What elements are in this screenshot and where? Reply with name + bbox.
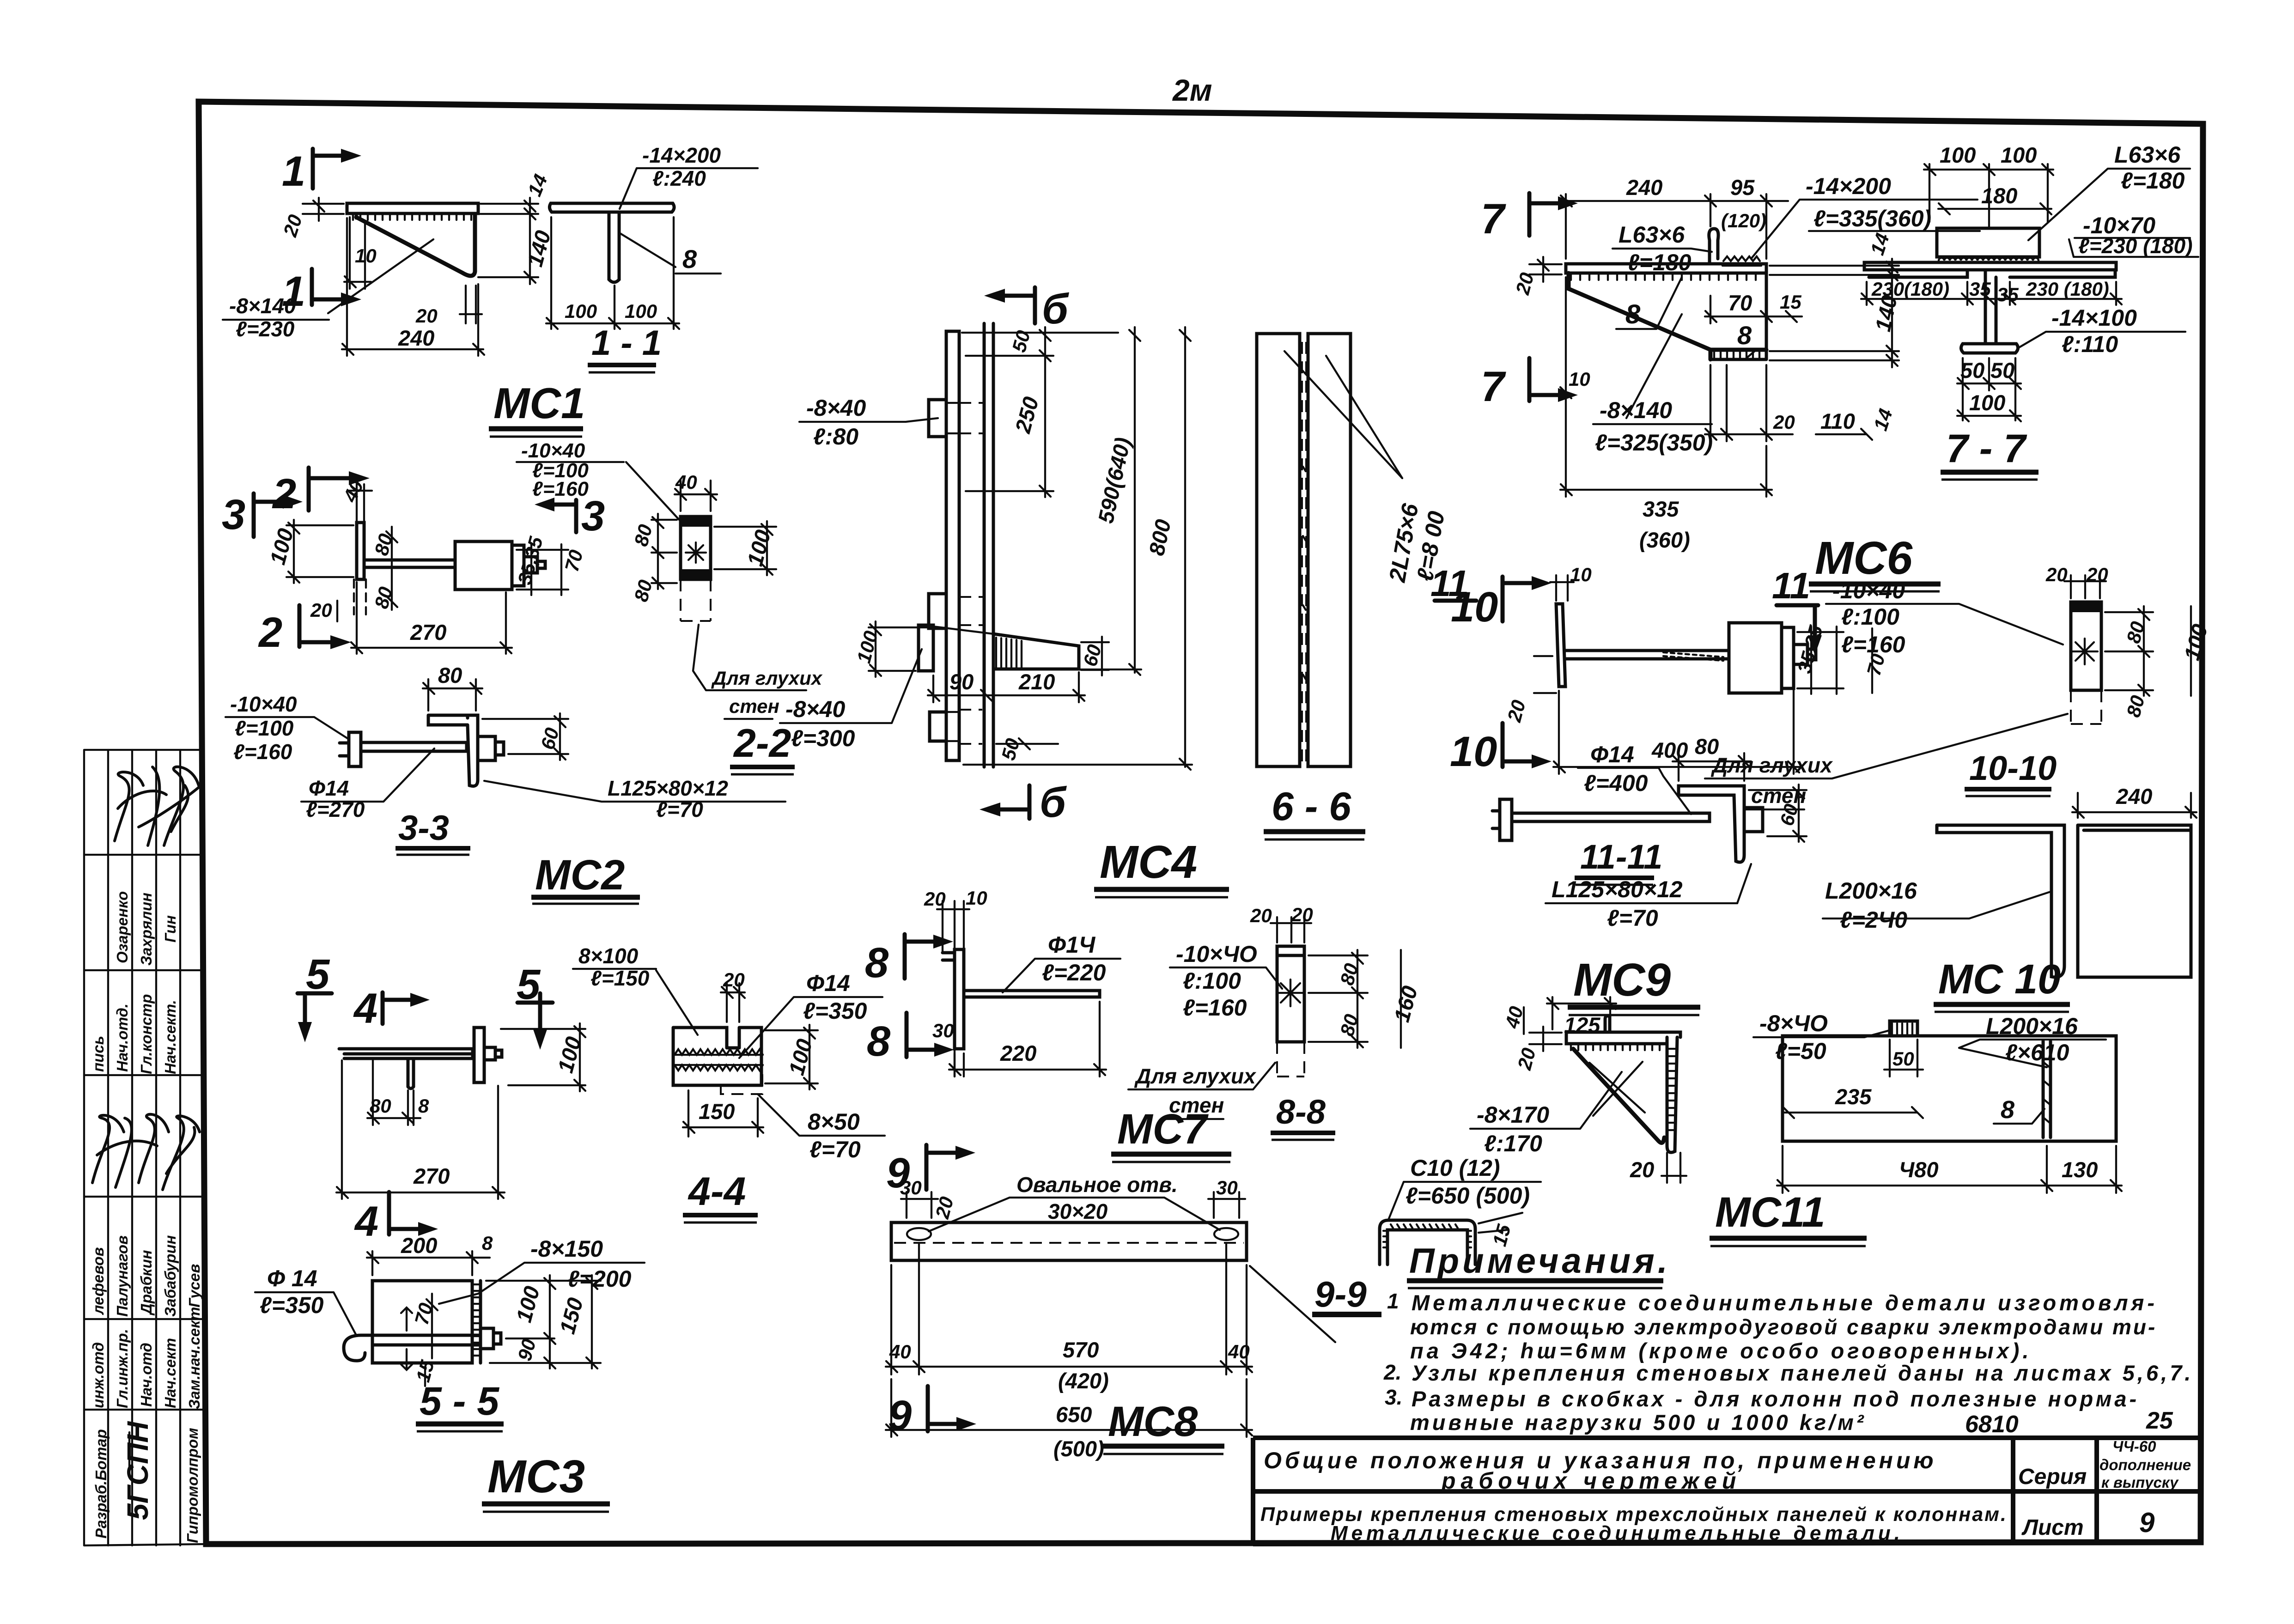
svg-text:5 - 5: 5 - 5 [420, 1379, 499, 1423]
8-8 note for blind walls [1128, 1063, 1275, 1119]
section mark 2 bottom [258, 605, 351, 656]
section mark 6 top [984, 286, 1069, 333]
note 1 [1387, 1289, 2158, 1363]
MC7 dims 20 10 top [924, 887, 987, 963]
svg-text:ℓ=350: ℓ=350 [260, 1292, 324, 1318]
svg-text:Ф14: Ф14 [309, 776, 349, 800]
3-3 title [396, 809, 470, 855]
svg-text:25: 25 [2146, 1407, 2173, 1434]
svg-text:-14×200: -14×200 [642, 143, 721, 167]
svg-text:8: 8 [418, 1095, 429, 1117]
svg-text:235: 235 [1835, 1084, 1872, 1109]
section mark 7 top [1481, 193, 1578, 243]
svg-text:Палунагов: Палунагов [114, 1235, 131, 1317]
svg-text:Примечания.: Примечания. [1409, 1241, 1671, 1281]
svg-text:(420): (420) [1058, 1369, 1109, 1393]
svg-text:210: 210 [1018, 669, 1055, 694]
section mark 3 top [222, 491, 303, 538]
6-6 right bar [1308, 334, 1351, 766]
MC2 dim 40 top [339, 477, 372, 523]
5-5 dim 15 [412, 1357, 438, 1386]
section mark 8 top [865, 934, 953, 986]
svg-text:L125×80×12: L125×80×12 [608, 776, 728, 800]
svg-text:8: 8 [865, 939, 889, 986]
MC11 dims 40 125 above gusset [1501, 997, 1616, 1037]
svg-text:-8×40: -8×40 [806, 395, 866, 421]
svg-text:ℓ=160: ℓ=160 [532, 478, 589, 500]
MC8 dims 30 30 20 [900, 1177, 1245, 1221]
svg-text:8-8: 8-8 [1276, 1093, 1326, 1131]
svg-text:8: 8 [482, 1232, 493, 1254]
title block cell List [2021, 1515, 2084, 1540]
section mark 2 top [272, 468, 370, 517]
MC2 dims 35 35 70 right [513, 534, 587, 595]
MC6 dims right 14 140 14 [1770, 231, 1902, 433]
svg-text:Разраб.Ботар: Разраб.Ботар [92, 1429, 110, 1539]
svg-text:стен: стен [1169, 1093, 1224, 1117]
svg-text:50: 50 [1990, 358, 2014, 383]
svg-text:МС 10: МС 10 [1938, 956, 2061, 1003]
svg-text:Ч80: Ч80 [1899, 1157, 1939, 1182]
8-8 label -10x40 [1170, 941, 1282, 1021]
MC6 angle stub on top [1709, 229, 1761, 266]
svg-text:11: 11 [1772, 565, 1810, 606]
3-3 label -10x40 [225, 692, 349, 764]
svg-text:270: 270 [410, 620, 446, 645]
9-9 label C10(12) [1388, 1155, 1541, 1220]
MC4 dim 800 [963, 327, 1192, 770]
section mark 5 left [298, 951, 332, 1042]
svg-text:ℓ=220: ℓ=220 [1042, 960, 1106, 985]
svg-text:Нач.отд: Нач.отд [138, 1343, 155, 1407]
svg-text:Нач.сект.: Нач.сект. [162, 1000, 179, 1074]
svg-text:2м: 2м [1172, 73, 1212, 107]
3-3 dim 80 [423, 663, 482, 711]
svg-text:Металлические соединительные д: Металлические соединительные детали. [1331, 1522, 1904, 1545]
svg-text:3: 3 [222, 491, 245, 538]
svg-text:ℓ=400: ℓ=400 [1584, 770, 1648, 796]
svg-text:7: 7 [1481, 363, 1506, 410]
MC10 dim 240 [2072, 784, 2197, 818]
svg-text:80: 80 [438, 663, 462, 687]
4-4 title [683, 1169, 758, 1223]
svg-text:рабочих чертежей: рабочих чертежей [1441, 1468, 1741, 1494]
svg-text:ℓ=200: ℓ=200 [567, 1266, 632, 1292]
svg-text:8: 8 [2001, 1096, 2014, 1124]
11-11 dim 60 [1749, 785, 1807, 842]
svg-text:ℓ=160: ℓ=160 [1841, 632, 1905, 657]
8-8 dims 80 80 160 [1308, 950, 1422, 1048]
svg-text:к выпуску: к выпуску [2101, 1474, 2179, 1491]
MC11 gusset label -8x170 [1470, 1072, 1622, 1156]
MC2 dim 270 [351, 582, 512, 654]
svg-text:ℓ=160: ℓ=160 [233, 740, 292, 764]
MC6 top plate [1566, 264, 1766, 280]
svg-text:240: 240 [2116, 784, 2152, 809]
MC9 dim 400 [1553, 668, 1800, 774]
MC4 label -8x40 l=300 [780, 649, 922, 751]
svg-text:-10×ЧO: -10×ЧO [1176, 941, 1257, 967]
5-5 label -8x150 l=200 [439, 1236, 645, 1304]
MC4 title [1094, 836, 1229, 897]
3-3 label L125x80x12 [484, 776, 785, 821]
MC6 dim 335 (360) [1560, 398, 1772, 552]
svg-text:Лист: Лист [2021, 1515, 2084, 1540]
11-11 angle [1679, 786, 1763, 862]
svg-text:-8×40: -8×40 [785, 696, 845, 722]
svg-text:8: 8 [682, 244, 697, 274]
MC10 label L200x16 l=240 [1823, 878, 2051, 933]
5-5 dim 70 [410, 1294, 438, 1358]
MC9 washer plate [1556, 604, 1565, 687]
title block cell series value [2099, 1438, 2191, 1491]
svg-text:-10×40: -10×40 [1832, 578, 1905, 603]
MC6 dims 20 110 [1705, 365, 1872, 441]
MC7 dim 30 [932, 1020, 964, 1077]
svg-text:2-2: 2-2 [733, 721, 791, 766]
stamp strip titles row 2 [90, 1307, 203, 1409]
MC11 plate label -8x40 l=50 [1753, 1010, 1890, 1064]
svg-text:5: 5 [306, 951, 330, 998]
svg-text:ℓ=70: ℓ=70 [1607, 905, 1658, 931]
MC6 title [1809, 532, 1941, 591]
svg-text:(120): (120) [1721, 210, 1766, 231]
7-7 dims 100 100 180 [1924, 143, 2053, 226]
MC7 title [1111, 1106, 1231, 1162]
svg-text:Гин: Гин [162, 915, 179, 943]
7-7 bottom pad [1961, 344, 2018, 353]
svg-text:Гусев: Гусев [186, 1264, 203, 1308]
svg-text:инж.отд: инж.отд [90, 1342, 107, 1408]
svg-text:1: 1 [1387, 1289, 1399, 1313]
section mark 4 top [353, 985, 430, 1032]
svg-text:20: 20 [1630, 1157, 1654, 1182]
svg-text:20: 20 [415, 305, 438, 327]
svg-text:Ф1Ч: Ф1Ч [1048, 932, 1096, 958]
MC3 dim 100 right [501, 1023, 586, 1091]
svg-text:100: 100 [1940, 143, 1976, 167]
9-9 leader from MC8 [1250, 1266, 1335, 1342]
section mark 7 bottom [1481, 358, 1578, 410]
MC2 title [531, 852, 640, 904]
MC2 plan block [455, 541, 545, 590]
3-3 dim 60 [482, 713, 568, 760]
4-4 weld hatch band [673, 1049, 763, 1071]
svg-text:9: 9 [2139, 1507, 2155, 1538]
MC4 main plate [946, 331, 959, 760]
border frame [199, 102, 2203, 1544]
MC4 top bolt block [929, 400, 983, 437]
svg-text:100: 100 [565, 300, 597, 322]
MC10 title [1934, 956, 2070, 1012]
svg-text:15: 15 [1780, 291, 1801, 313]
MC4 dim 50 250 top [962, 327, 1118, 497]
svg-text:МС2: МС2 [535, 852, 625, 899]
1-1 label 8 weld [620, 233, 721, 274]
MC1 dim 20 bottom right [415, 286, 482, 327]
MC11 dim 50 [1884, 1040, 1923, 1077]
11-11 label -10x40 l=100 l=160 [1826, 578, 2063, 657]
MC3 title [482, 1451, 610, 1512]
5-5 small weld arrows [401, 1308, 412, 1370]
7-7 flange dim texts [1861, 278, 2122, 305]
svg-text:2: 2 [258, 609, 282, 656]
svg-text:50: 50 [1960, 358, 1984, 383]
svg-text:ℓ=335(360): ℓ=335(360) [1813, 206, 1931, 231]
svg-text:ℓ=2Ч0: ℓ=2Ч0 [1840, 907, 1907, 933]
svg-text:-14×200: -14×200 [1806, 173, 1891, 199]
svg-text:тивные нагрузки 500 и 1000 k: тивные нагрузки 500 и 1000 kг/м² [1410, 1410, 1867, 1435]
svg-text:Ф14: Ф14 [806, 970, 850, 996]
MC1 bracket top plate [347, 203, 478, 220]
MC1 dim 20 left [279, 198, 344, 240]
svg-text:ℓ=180: ℓ=180 [2121, 168, 2185, 194]
svg-text:10: 10 [966, 887, 987, 909]
3-3 angle bracket [428, 715, 504, 786]
MC1 dim 240 [342, 218, 484, 356]
2-2 dim 100 right [714, 521, 776, 575]
svg-text:1: 1 [282, 148, 305, 195]
svg-text:650: 650 [1056, 1402, 1092, 1427]
svg-text:-10×40: -10×40 [230, 692, 297, 716]
svg-text:100: 100 [2001, 143, 2037, 167]
4-4 label 8x100 [573, 944, 698, 1035]
MC6 dim 20 left [1511, 257, 1562, 297]
svg-text:10: 10 [1450, 728, 1497, 775]
MC3 plan plates [339, 1049, 473, 1058]
sheet number stamp 2m top center [1172, 73, 1212, 107]
svg-text:Гл.инж.пр.: Гл.инж.пр. [114, 1329, 131, 1408]
svg-text:95: 95 [1730, 175, 1755, 200]
svg-text:8×50: 8×50 [808, 1109, 860, 1135]
svg-text:Зам.нач.сект: Зам.нач.сект [186, 1307, 203, 1409]
MC11 plate tab [1890, 1021, 1917, 1036]
svg-text:240: 240 [398, 326, 434, 350]
left stamp strip outer box [84, 750, 206, 1545]
MC2 plan washer plate [354, 523, 366, 614]
MC7 rod [964, 991, 1100, 997]
title block cell sheet number 9 [2139, 1507, 2155, 1538]
MC9 rod [1565, 651, 1729, 661]
section mark 9 bottom [888, 1386, 976, 1439]
svg-text:35: 35 [1969, 278, 1991, 300]
svg-text:-8×150: -8×150 [530, 1236, 603, 1262]
svg-text:70: 70 [1728, 291, 1752, 315]
svg-text:270: 270 [413, 1164, 450, 1188]
svg-text:8: 8 [1737, 321, 1752, 350]
4-4 bottom dashed pad [721, 1067, 762, 1094]
svg-text:20: 20 [1773, 411, 1795, 433]
MC11 title [1710, 1189, 1867, 1246]
MC3 plan washer bolt [474, 1028, 502, 1083]
svg-text:Металлические соединительные: Металлические соединительные детали изго… [1412, 1290, 2158, 1315]
section mark 3 right [535, 493, 605, 540]
svg-text:180: 180 [1981, 183, 2017, 208]
MC11 dim 235 [1783, 1084, 1923, 1118]
9-9 title [1312, 1274, 1381, 1314]
svg-text:МС3: МС3 [487, 1451, 585, 1502]
title block cell Seriya [2018, 1465, 2087, 1489]
MC4 dim 100 bracket [852, 621, 931, 677]
MC1 dim 10 [344, 217, 377, 289]
MC11 dim 20 gusset left [1513, 1027, 1562, 1072]
4-4 dim 20 gap [721, 969, 745, 1022]
svg-text:20: 20 [924, 888, 946, 910]
section mark 9 top [886, 1145, 975, 1197]
MC11 plate [1783, 1036, 2116, 1141]
svg-text:11-11: 11-11 [1580, 838, 1662, 876]
svg-text:30×20: 30×20 [1048, 1199, 1108, 1223]
MC6 label 8 weld left [1616, 277, 1682, 329]
MC3 dim 270 [336, 1060, 505, 1199]
svg-text:9-9: 9-9 [1314, 1274, 1367, 1314]
4-4 label F14 l=350 [739, 970, 882, 1058]
10-10 plate [2071, 602, 2101, 724]
svg-text:-8×170: -8×170 [1477, 1102, 1549, 1128]
svg-text:230(180): 230(180) [1871, 278, 1949, 300]
MC2 dim 80 80 [370, 527, 397, 611]
svg-text:30: 30 [1216, 1177, 1238, 1198]
7-7 top pad [1937, 228, 2039, 261]
svg-text:240: 240 [1626, 175, 1662, 200]
1-1 dims 100 100 [546, 217, 679, 329]
MC1 leader label -8x140 l=230 [223, 294, 329, 341]
svg-text:335: 335 [1643, 497, 1679, 521]
MC7 label F14 l=220 [1003, 932, 1120, 992]
svg-text:Ф14: Ф14 [1590, 742, 1634, 767]
MC8 title [1102, 1398, 1224, 1454]
svg-text:5ГСПН: 5ГСПН [121, 1421, 154, 1520]
svg-text:-14×100: -14×100 [2051, 305, 2137, 331]
5-5 dim 200 8 [367, 1232, 493, 1275]
svg-text:б: б [1042, 286, 1069, 333]
MC4 dim 590(640) [1063, 327, 1141, 675]
6-6 center dashed seam [1302, 342, 1306, 762]
svg-text:дополнение: дополнение [2099, 1456, 2191, 1473]
svg-text:Ф 14: Ф 14 [267, 1265, 317, 1291]
svg-text:Для глухих: Для глухих [711, 667, 823, 689]
MC6 dim 10 [1560, 277, 1590, 398]
svg-text:L125×80×12: L125×80×12 [1552, 876, 1683, 902]
svg-text:МС9: МС9 [1573, 954, 1671, 1006]
svg-text:400: 400 [1651, 738, 1688, 762]
svg-text:Драбкин: Драбкин [138, 1250, 155, 1316]
svg-text:стен: стен [729, 695, 779, 717]
MC1 bracket web [356, 213, 475, 276]
5-5 plate rect [372, 1281, 481, 1363]
svg-text:ℓ=70: ℓ=70 [809, 1137, 861, 1162]
stamp strip org row [92, 1421, 201, 1543]
4-4 label 8x50 l=70 [758, 1094, 885, 1162]
MC2 dim 20 [310, 599, 337, 621]
MC7 dim 220 [949, 1002, 1106, 1077]
stamp strip names row 1 [114, 891, 179, 966]
svg-text:ются с помощью электродуговой: ются с помощью электродуговой сварки эле… [1410, 1315, 2157, 1339]
svg-text:МС11: МС11 [1715, 1189, 1825, 1236]
MC1 leader cross [328, 239, 433, 313]
svg-text:3-3: 3-3 [398, 809, 449, 848]
MC8 dims 40 570 40 [886, 1243, 1252, 1393]
6-6 label 2L75x6 l=800 [1284, 351, 1449, 584]
svg-text:-8×140: -8×140 [229, 294, 296, 318]
MC8 oval hole right [1214, 1228, 1238, 1240]
7-7 label -14x100 l=110 [2019, 305, 2185, 357]
MC1 dims right 14 140 [478, 171, 555, 284]
7-7 label -10x70 [2069, 213, 2198, 258]
svg-text:Овальное отв.: Овальное отв. [1016, 1173, 1178, 1197]
1-1 stem [609, 212, 619, 282]
MC10 angle side view [1937, 825, 2064, 977]
10-10 dim 20 20 [2045, 564, 2108, 598]
svg-text:стен: стен [1751, 784, 1806, 808]
section mark 10 bottom [1450, 723, 1552, 775]
svg-text:Озаренко: Озаренко [114, 891, 131, 963]
svg-text:6810: 6810 [1965, 1411, 2019, 1438]
svg-text:20: 20 [2086, 564, 2108, 585]
4-4 right block [728, 1028, 761, 1085]
svg-text:100: 100 [1969, 390, 2005, 415]
7-7 web [1985, 270, 1996, 344]
title block text row 2 [1260, 1503, 2008, 1545]
2-2 title [730, 721, 795, 774]
svg-text:200: 200 [401, 1233, 437, 1258]
MC4 panel double line [984, 323, 993, 767]
MC4 dims 90 210 [928, 669, 1085, 702]
svg-text:30: 30 [932, 1020, 954, 1041]
2-2 dims 80 80 left [630, 514, 677, 604]
MC6 dims 240 95 (120) [1560, 175, 1788, 259]
8-8 plate [1277, 946, 1304, 1077]
section mark 1 top [282, 148, 361, 195]
svg-text:Размеры в скобках - для колон: Размеры в скобках - для колонн под полез… [1412, 1387, 2139, 1411]
svg-text:L200×16: L200×16 [1825, 878, 1917, 904]
MC11 label 8 weld [1994, 1096, 2045, 1124]
MC11 label L200x16 l=610 [1959, 1013, 2106, 1067]
stamp strip signatures row 1 [115, 767, 201, 845]
section mark 10 top [1451, 576, 1552, 631]
svg-text:ℓ:80: ℓ:80 [813, 424, 858, 450]
3-3 label F14 l=270 [301, 748, 434, 821]
2-2 dim 40 top [675, 471, 717, 511]
MC9 dim 20 left [1503, 656, 1556, 724]
section mark 8 bottom [867, 1013, 954, 1065]
svg-text:ℓ=325(350): ℓ=325(350) [1595, 430, 1713, 456]
svg-text:30: 30 [900, 1177, 922, 1198]
10-10 note for blind walls [1705, 714, 2068, 809]
svg-text:Серия: Серия [2018, 1465, 2087, 1489]
svg-text:ℓ=350: ℓ=350 [803, 998, 867, 1024]
2-2 plate [681, 517, 711, 621]
section mark 1 bottom [282, 268, 361, 315]
svg-text:7 - 7: 7 - 7 [1946, 426, 2027, 471]
svg-text:МС6: МС6 [1815, 532, 1913, 584]
svg-text:б: б [1040, 779, 1067, 826]
svg-text:Нач.отд.: Нач.отд. [114, 1004, 131, 1072]
svg-text:570: 570 [1063, 1338, 1099, 1362]
notes heading [1407, 1241, 1671, 1288]
section mark 6 bottom [980, 779, 1067, 826]
stamp strip signatures row 2 [92, 1114, 200, 1190]
MC8 oval hole left [907, 1228, 931, 1240]
11-11 mark [1772, 565, 1822, 655]
5-5 label F14 l=350 [255, 1265, 356, 1334]
svg-text:-10×40: -10×40 [521, 439, 585, 462]
section mark 4 bottom [354, 1192, 438, 1245]
svg-text:4: 4 [354, 1198, 378, 1245]
svg-text:Забабурин: Забабурин [162, 1235, 179, 1317]
note 2 [1383, 1360, 2193, 1385]
svg-text:(360): (360) [1639, 528, 1690, 552]
